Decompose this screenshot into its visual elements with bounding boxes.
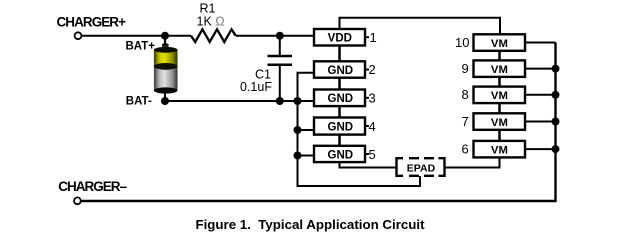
svg-text:R1: R1 [200,2,216,16]
pin GND pin 3 [314,90,376,107]
svg-text:9: 9 [462,61,469,76]
node CHARGER+ terminal [75,32,82,39]
svg-text:VM: VM [491,144,508,156]
svg-text:VM: VM [491,90,508,102]
wire right bus vertical [554,43,556,202]
wire VM9 to right bus [525,68,556,70]
wire EPAD to VM6 stub [444,157,500,167]
pin GND pin 2 [314,61,376,77]
svg-text:GND: GND [328,65,354,77]
wire CHARGER+ to R1 [82,35,191,37]
junction left bus GND5 [294,152,302,160]
junction left bus GND4 [294,126,302,134]
battery BT1 [154,36,178,101]
wire VM10 to right bus [525,42,556,44]
svg-text:Figure 1. Typical Application: Figure 1. Typical Application Circuit [195,217,425,232]
junction right bus VM6 [552,145,560,153]
junction C1 bottom node [276,97,284,105]
svg-text:GND: GND [328,149,354,161]
wire BAT- to GND3 [165,100,314,102]
pin VM pin 6 [462,141,526,158]
svg-text:BAT-: BAT- [126,95,152,107]
wire VM6 to right bus [525,148,556,150]
junction battery - node [161,97,169,105]
svg-text:EPAD: EPAD [407,162,436,174]
wire VM8 to right bus [525,94,556,96]
wire R1 to C1 node [236,35,314,37]
svg-text:7: 7 [462,114,469,129]
junction left bus BAT- [294,97,302,105]
svg-text:CHARGER+: CHARGER+ [57,15,127,30]
pin VM pin 9 [462,60,526,77]
svg-text:1: 1 [370,30,377,45]
junction right bus VM7 [552,118,560,126]
svg-text:VM: VM [491,64,508,76]
svg-text:1K Ω: 1K Ω [197,15,225,29]
pin VM pin 7 [462,113,526,130]
svg-text:0.1uF: 0.1uF [240,80,272,94]
pin VDD pin 1 [314,29,377,46]
wire VM7 to right bus [525,121,556,123]
pin GND pin 5 [314,146,376,162]
resistor R1 [191,29,236,42]
wire GND5 to EPAD [340,162,397,167]
svg-text:4: 4 [369,119,376,134]
EPAD pad (dashed) [397,158,445,176]
svg-text:8: 8 [462,87,469,102]
svg-text:BAT+: BAT+ [126,40,156,52]
pin GND pin 4 [314,118,376,135]
svg-text:3: 3 [369,91,376,106]
pin VM pin 8 [462,87,526,104]
wire left GND bus [298,73,421,186]
pin VM pin 10 [455,34,525,51]
svg-text:5: 5 [369,147,376,162]
capacitor C1 [268,36,293,101]
svg-text:GND: GND [328,121,354,133]
wire CHARGER- [81,200,557,202]
junction battery + node [161,32,169,40]
wire VDD top to VM10 top [340,18,501,34]
wire stubs between left pin boxes [338,46,341,146]
junction C1 top node [276,32,284,40]
node CHARGER- terminal [74,197,81,204]
wire stubs between right pin boxes [498,51,501,141]
svg-text:VM: VM [491,117,508,129]
svg-text:GND: GND [328,93,354,105]
svg-text:10: 10 [455,35,469,50]
junction right bus VM9 [552,65,560,73]
svg-text:VM: VM [491,38,508,50]
svg-text:2: 2 [369,62,376,77]
svg-text:CHARGER–: CHARGER– [58,179,127,194]
svg-text:6: 6 [462,142,469,157]
junction right bus VM8 [552,91,560,99]
svg-text:VDD: VDD [328,32,352,44]
